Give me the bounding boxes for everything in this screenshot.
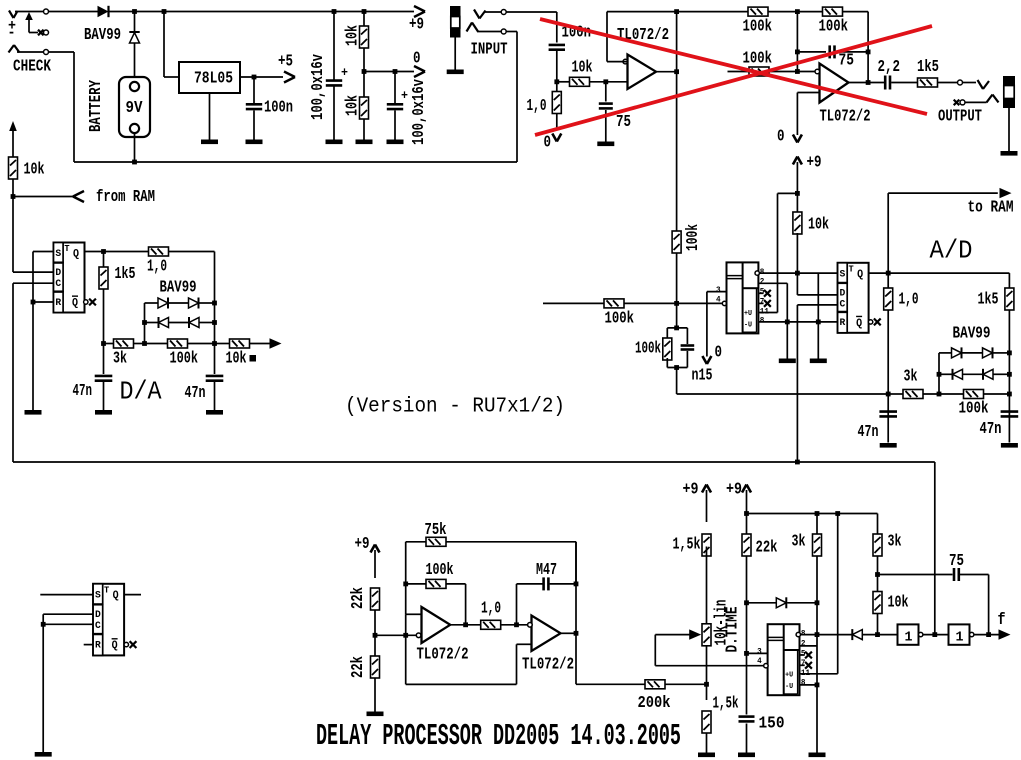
wire U6 DC vert	[42, 614, 44, 752]
wire R 10k a wire b	[363, 48, 365, 72]
node da bottom n3	[212, 341, 217, 346]
label 1k5 D/A	[115, 264, 136, 283]
node 200k node	[704, 682, 709, 687]
capacitor 100n input	[549, 45, 565, 50]
ground osc	[367, 712, 384, 717]
node n mid row	[795, 69, 800, 74]
wire opamp1 out	[656, 71, 677, 73]
svg-text:M47: M47	[536, 560, 557, 579]
svg-text:-: -	[8, 25, 16, 42]
wire 47n R wire	[214, 344, 216, 375]
wire osc 22k a wire	[374, 610, 376, 635]
svg-text:7: 7	[801, 659, 806, 668]
J2 ring contact	[987, 95, 999, 103]
wire adb left vert	[938, 353, 940, 394]
label 10k-lin	[712, 600, 731, 646]
label 100k ad bot	[959, 399, 989, 418]
wire 1,0 right wire	[169, 252, 215, 344]
wire adb row2 a	[939, 373, 953, 375]
wire v868	[867, 52, 869, 83]
ground 78L05	[201, 140, 218, 145]
svg-text:11: 11	[760, 307, 769, 316]
U3 Qbar bubble	[84, 300, 88, 304]
node n2	[162, 9, 167, 14]
wire sr gnd vert	[817, 273, 819, 322]
wire 47n L wire	[103, 344, 105, 375]
wire osc 22k b wire	[374, 635, 376, 656]
svg-text:47n: 47n	[73, 381, 93, 400]
label TL072/2 #3	[417, 645, 469, 664]
node gnd row n1	[785, 320, 790, 325]
wire 200k row b	[665, 683, 707, 685]
label TL072/2 #2	[820, 107, 871, 126]
switch arrow	[25, 12, 33, 20]
wire U8 out row	[801, 634, 852, 636]
wire bridge row2 a	[145, 322, 159, 324]
ground U3	[25, 410, 42, 415]
U4 pin4 bubble	[722, 301, 726, 305]
U4 x pin a	[758, 290, 770, 297]
label 10k ad	[808, 215, 829, 234]
arrow +5	[284, 72, 295, 83]
ground J1	[447, 70, 464, 75]
node f row n4	[986, 632, 991, 637]
wire U3 gnd wire	[32, 302, 34, 410]
ground C2	[326, 140, 343, 145]
label 100k D/A	[170, 349, 199, 368]
wire br1 stem	[706, 490, 708, 522]
svg-text:100k: 100k	[426, 560, 454, 579]
wire U3 S-R vert	[32, 252, 34, 303]
svg-text:75k: 75k	[425, 520, 447, 539]
svg-text:1k5: 1k5	[115, 264, 136, 283]
resistor 1k5 out	[918, 78, 938, 87]
label 22k br	[756, 538, 778, 557]
label 1k5 out	[917, 57, 939, 76]
ground 47n ad L	[880, 443, 897, 448]
ground 47n ad R	[1001, 443, 1018, 448]
label +9 ad	[807, 153, 822, 172]
wire long row right	[797, 462, 934, 635]
svg-text:0: 0	[777, 127, 785, 146]
ground br1	[698, 753, 715, 758]
svg-text:10k: 10k	[572, 58, 593, 77]
ground chip b	[810, 359, 827, 364]
svg-text:TL072/2: TL072/2	[417, 645, 469, 664]
node br pin3 node	[744, 651, 749, 656]
resistor 10k b	[360, 97, 369, 119]
resistor 1,0 ad	[884, 288, 893, 310]
wire left vert C to long row	[13, 283, 797, 462]
wire R 10k b wire b	[363, 119, 365, 140]
wire f row c	[974, 634, 1000, 636]
wire 3k1 wire	[816, 514, 818, 536]
label TL072/2 #1	[617, 25, 669, 44]
label 100k f2	[819, 17, 849, 36]
node U6 C node	[41, 622, 46, 627]
wire br2 stem e	[746, 724, 748, 753]
svg-text:1,5k: 1,5k	[673, 535, 701, 554]
wire 47n ad L wire	[887, 394, 889, 443]
node U3 Q node	[101, 249, 106, 254]
label CHECK	[13, 57, 51, 76]
node bridge n3	[212, 320, 217, 325]
node osc in node b	[403, 633, 408, 638]
wire br2 stem b	[746, 514, 748, 535]
wire osc out row b	[501, 624, 529, 626]
wire top rail segment b	[49, 11, 98, 13]
wire bridge row1 b	[169, 302, 189, 304]
wire da row d	[188, 343, 215, 345]
label 1,0 input	[527, 96, 547, 115]
svg-text:Q: Q	[72, 297, 78, 309]
svg-text:+U: +U	[744, 310, 752, 318]
resistor 100k ad	[964, 390, 984, 399]
wire U3 S wire	[33, 251, 54, 253]
node n 868 75row	[866, 50, 871, 55]
svg-text:S: S	[55, 248, 61, 260]
node n3	[332, 9, 337, 14]
label 200k	[638, 693, 671, 712]
svg-text:1,5k: 1,5k	[713, 694, 739, 713]
U8 x pin b	[800, 662, 812, 669]
svg-text:TL072/2: TL072/2	[522, 655, 574, 674]
resistor 100k f3	[749, 67, 769, 76]
node n 797 75row	[795, 50, 800, 55]
arrow 0 opamp2	[793, 135, 802, 143]
capacitor 47n D/A right	[206, 376, 224, 381]
svg-text:75: 75	[839, 51, 855, 70]
input lug 2	[501, 29, 506, 34]
node br2 node	[744, 511, 749, 516]
ground C3	[387, 140, 404, 145]
label 10k left	[24, 160, 45, 179]
wire left 10k wire	[12, 130, 14, 157]
label 100n	[264, 98, 293, 117]
wire U6 S stub	[40, 594, 93, 596]
wire top rail right c	[843, 12, 869, 52]
label 3k D/A	[113, 349, 127, 368]
diode D4	[189, 298, 199, 309]
svg-text:47n: 47n	[980, 419, 1002, 438]
wire input tip wire	[484, 11, 501, 13]
svg-text:C: C	[55, 278, 61, 290]
wire osc2 out	[561, 632, 577, 634]
label 47n ad L	[858, 422, 879, 441]
svg-text:+9: +9	[807, 153, 822, 172]
resistor 100k D/A	[168, 339, 188, 348]
wire input signal wire	[506, 11, 557, 13]
diode D2 BAV99	[129, 32, 139, 43]
wire opamp1 fb	[607, 12, 677, 62]
power plug ring contact	[9, 45, 20, 53]
svg-text:-U: -U	[744, 321, 752, 329]
wire opamp2 out	[849, 82, 885, 84]
svg-text:0: 0	[715, 343, 723, 362]
wire from RAM wire	[13, 196, 73, 198]
node br diode node	[744, 600, 749, 605]
wire par left leg	[666, 328, 668, 340]
svg-text:200k: 200k	[638, 693, 671, 712]
wire 75 row	[878, 574, 953, 576]
capacitor par	[681, 346, 695, 350]
arrow +9 br1	[702, 485, 711, 493]
wire 100k osc row a	[406, 583, 426, 585]
wire adb row1 b	[963, 352, 983, 354]
wire 1,0 ad wire	[887, 273, 889, 394]
svg-text:INPUT: INPUT	[471, 40, 508, 59]
node n6	[362, 69, 367, 74]
wire pin11 vert	[800, 514, 838, 674]
arrow up left 10k	[9, 121, 17, 131]
label BAV99 D/A	[160, 278, 197, 297]
label BAV99 top	[84, 25, 121, 44]
ground br3	[809, 753, 826, 758]
diode D12	[852, 629, 862, 640]
wire osc fb vert	[405, 542, 407, 615]
svg-text:+9: +9	[409, 15, 424, 34]
wire osc in row	[375, 634, 419, 636]
label +9 osc	[355, 534, 370, 553]
wire br diode row a	[747, 602, 777, 604]
wire out ring wire	[965, 101, 987, 103]
svg-text:1: 1	[905, 630, 913, 646]
label 2,2	[878, 57, 901, 76]
label 100k ad in	[605, 309, 635, 328]
svg-text:R: R	[95, 640, 101, 652]
svg-text:100k: 100k	[605, 309, 635, 328]
node osc out node	[463, 622, 468, 627]
svg-text:T: T	[849, 263, 854, 274]
svg-text:T: T	[64, 243, 69, 254]
svg-text:47n: 47n	[185, 383, 206, 402]
svg-text:100k: 100k	[635, 339, 661, 358]
label 10k* D/A	[226, 349, 257, 368]
wire f row b	[923, 634, 949, 636]
diode D5	[159, 317, 169, 328]
svg-text:S: S	[840, 268, 846, 280]
wire ad bottom c	[984, 393, 1010, 395]
node da bottom n2	[142, 341, 147, 346]
svg-text:10k: 10k	[888, 593, 909, 612]
label 100k osc	[426, 560, 454, 579]
node U3 R node	[31, 300, 36, 305]
op-amp U1A TL072	[623, 55, 656, 90]
wire battery top wire	[134, 12, 136, 33]
label A/D text	[930, 236, 973, 266]
svg-text:1k5: 1k5	[978, 290, 999, 309]
regulator U2 78L05	[179, 62, 240, 93]
svg-text:22k: 22k	[348, 656, 367, 678]
node f row n2	[875, 632, 880, 637]
capacitor C3 100,0x16v	[387, 88, 408, 109]
wire da row e	[215, 343, 230, 345]
wire par right leg b	[686, 351, 688, 368]
svg-text:75: 75	[949, 551, 964, 570]
svg-text:100k: 100k	[170, 349, 199, 368]
svg-text:1: 1	[956, 630, 964, 646]
label M47	[536, 560, 557, 579]
resistor 10k br	[873, 592, 882, 614]
wire osc +9 stem	[374, 550, 376, 578]
resistor 1,0 input	[552, 92, 561, 114]
diode D3	[158, 298, 168, 309]
svg-text:2,2: 2,2	[878, 57, 901, 76]
wire 47n L wire b	[103, 382, 105, 410]
label 75 f	[839, 51, 855, 70]
resistor 22k b	[371, 656, 380, 678]
buffer 1 a	[898, 624, 923, 645]
resistor 1,0 osc	[481, 620, 501, 629]
wire adb row2 b	[963, 373, 983, 375]
wire 10k in wire	[557, 81, 570, 83]
wire f row a	[863, 634, 898, 636]
wire br 1,5k2 wire	[706, 684, 708, 700]
svg-text:1,0: 1,0	[147, 257, 167, 276]
label n15	[692, 366, 713, 385]
svg-text:to RAM: to RAM	[968, 198, 1014, 217]
wire 1,0 in wire	[556, 82, 558, 130]
svg-text:22k: 22k	[348, 587, 367, 609]
capacitor 47n D/A left	[95, 376, 113, 381]
label 75 br	[949, 551, 964, 570]
wire U6 C wire	[43, 623, 93, 625]
diode D7	[952, 347, 962, 358]
svg-text:Q: Q	[113, 590, 119, 602]
node n15 node 888	[886, 392, 891, 397]
wire U4 pin2 row	[758, 283, 787, 322]
switch contact S1b	[44, 30, 49, 35]
wire battery bottom wire	[134, 133, 136, 162]
diode D11	[776, 597, 786, 608]
wire vert 676 d	[677, 368, 889, 395]
label 1,0 D/A	[147, 257, 167, 276]
resistor 3k br1	[813, 534, 822, 556]
svg-text:2: 2	[801, 640, 806, 649]
node adb n4	[937, 392, 942, 397]
svg-text:10k: 10k	[343, 95, 362, 116]
wire top rail segment c	[109, 11, 415, 13]
svg-text:100,0x16v: 100,0x16v	[409, 79, 428, 145]
label BAV99 ad	[953, 324, 991, 343]
U8 pin labels	[757, 630, 810, 688]
node opamp1 out node2	[674, 69, 679, 74]
label 100,0x16v b	[409, 79, 428, 145]
wire 3k2 wire	[877, 514, 879, 536]
label 3k br2	[888, 532, 902, 551]
wire 78L05 gnd wire	[209, 93, 211, 140]
node osc2 out node	[574, 631, 579, 636]
svg-text:+9: +9	[355, 534, 370, 553]
svg-text:1,0: 1,0	[899, 290, 919, 309]
svg-text:Q: Q	[856, 318, 862, 330]
wire 3k2 wire b	[877, 556, 879, 592]
svg-text:3k: 3k	[792, 532, 806, 551]
U5 Qbar x	[874, 319, 881, 326]
wire main vert mid b	[676, 253, 678, 303]
wire 200k row a	[576, 683, 645, 685]
label OUTPUT	[938, 107, 982, 126]
svg-text:R: R	[55, 297, 61, 309]
node bridge n2	[142, 320, 147, 325]
label 10k b	[343, 95, 362, 116]
wire pot bottom	[706, 646, 708, 685]
wire M47 row b	[517, 583, 543, 585]
node ad +9 node	[795, 191, 800, 196]
jack J1 input	[450, 6, 461, 38]
node n7	[393, 69, 398, 74]
node br bottom n	[815, 683, 820, 688]
op-amp U7A	[416, 607, 450, 643]
wire switch wiper	[29, 19, 38, 33]
wire 47n ad R wire	[1008, 394, 1010, 443]
wire 75k row b	[446, 542, 576, 584]
capacitor 75 opamp1	[599, 104, 613, 109]
arrow +9 osc	[371, 545, 380, 553]
wire C3 wire b	[394, 111, 396, 140]
node Q row node	[886, 271, 891, 276]
wire osc2 out vert	[575, 542, 577, 685]
label 1k5 ad	[978, 290, 999, 309]
wire U4 bottom row	[758, 321, 837, 323]
svg-text:10k: 10k	[808, 215, 829, 234]
wire C2 wire b	[333, 87, 335, 140]
wire U8 pin4 wire	[655, 665, 764, 667]
resistor 100k osc	[426, 579, 446, 588]
label 3k ad	[904, 367, 918, 386]
wire bridge row1 c	[200, 302, 215, 304]
wire osc 22k b wire b	[374, 678, 376, 712]
battery BT1	[119, 77, 150, 137]
wire br2 stem	[746, 490, 748, 514]
wire 75row b	[838, 51, 868, 53]
node par net top	[674, 326, 679, 331]
svg-text:Q: Q	[857, 269, 863, 281]
wire 75 cap wire b	[605, 110, 607, 142]
wire U6 D wire	[43, 613, 93, 615]
resistor 1,5k br2	[702, 711, 711, 733]
wire R 10k a wire	[363, 12, 365, 27]
wire mid 100k row a	[728, 71, 750, 73]
node long row node	[795, 460, 800, 465]
label 47n ad R	[980, 419, 1002, 438]
svg-text:7: 7	[760, 297, 765, 306]
svg-text:OUTPUT: OUTPUT	[938, 107, 982, 126]
resistor 1,5k br1	[702, 534, 711, 556]
svg-text:CHECK: CHECK	[13, 57, 51, 76]
node adb n5	[1007, 392, 1012, 397]
wire da row a	[104, 343, 114, 345]
red cross line 1	[540, 19, 927, 114]
wire da row b	[134, 343, 145, 345]
label 47n D/A L	[73, 381, 93, 400]
op-amp U1B TL072	[815, 64, 849, 103]
U3 Qbar x	[89, 299, 96, 306]
svg-text:10k: 10k	[24, 160, 45, 179]
resistor R2 10k	[9, 157, 18, 179]
label 0 mid	[413, 49, 421, 68]
resistor 100k f2	[823, 7, 843, 16]
svg-text:S: S	[95, 590, 101, 602]
diode D8	[983, 347, 993, 358]
label 75 opamp1	[616, 112, 631, 131]
wire 100n2 wire b	[556, 51, 558, 82]
resistor 1,0 D/A	[149, 247, 169, 256]
U6 Qbar bubble	[124, 642, 128, 646]
svg-text:+: +	[401, 88, 408, 103]
flip-flop U6	[93, 584, 124, 656]
wire osc bottom row	[406, 644, 532, 684]
